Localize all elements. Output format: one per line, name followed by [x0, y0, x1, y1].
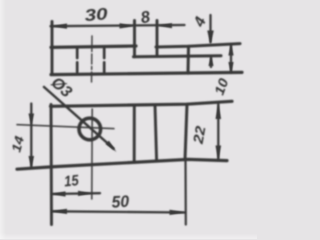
svg-text:50: 50	[111, 193, 130, 212]
svg-text:15: 15	[63, 172, 80, 190]
svg-text:22: 22	[190, 125, 209, 146]
svg-text:30: 30	[84, 5, 110, 25]
